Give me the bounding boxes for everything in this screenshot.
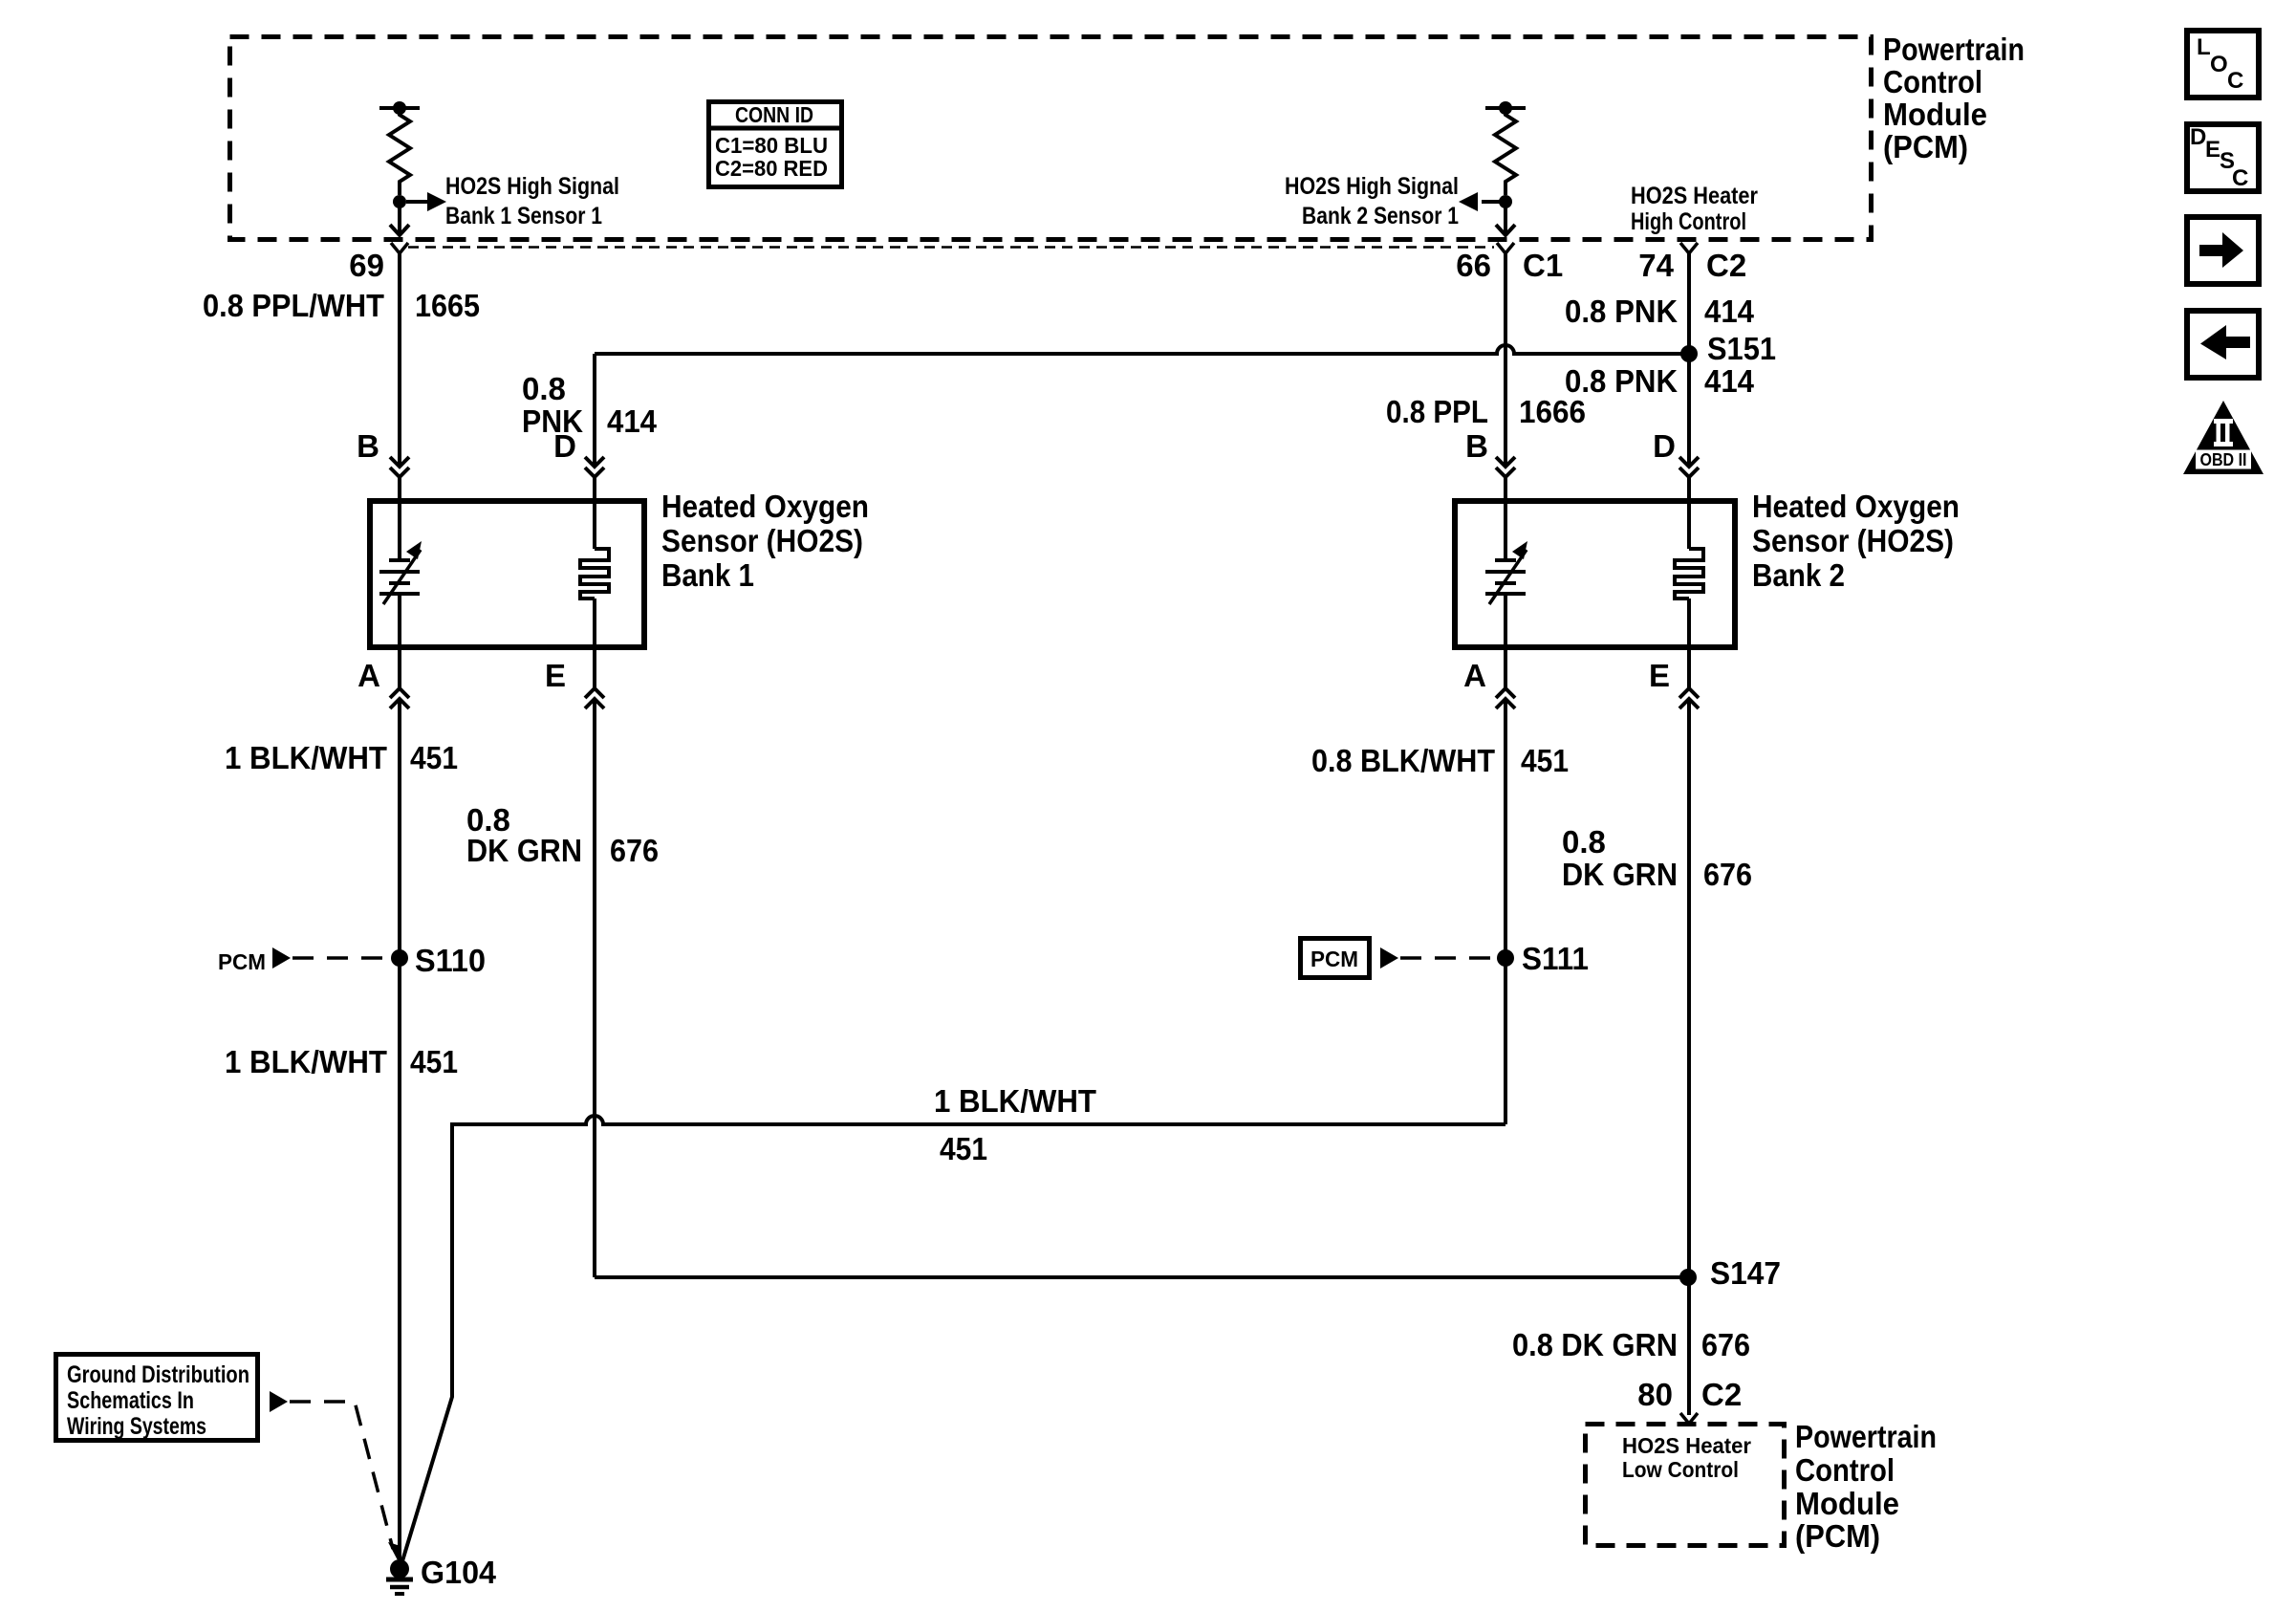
icon arrow-left box bbox=[2187, 311, 2259, 378]
svg-text:Bank 1: Bank 1 bbox=[661, 557, 754, 593]
connector pin 66 C1 bbox=[1497, 243, 1514, 253]
svg-text:74: 74 bbox=[1638, 248, 1674, 283]
dashed reference line to S111 bbox=[1400, 956, 1497, 960]
sensor cell element bank1 bbox=[398, 501, 401, 560]
svg-text:G104: G104 bbox=[421, 1555, 497, 1590]
svg-text:676: 676 bbox=[1703, 857, 1752, 892]
svg-text:CONN ID: CONN ID bbox=[735, 102, 813, 127]
svg-text:0.8 BLK/WHT: 0.8 BLK/WHT bbox=[1311, 743, 1495, 778]
connector pin 69 C1 bbox=[391, 243, 408, 253]
svg-text:E: E bbox=[1649, 658, 1670, 693]
in-line connector D bank2 bbox=[1679, 457, 1699, 477]
svg-text:451: 451 bbox=[410, 1044, 458, 1079]
arrow PCM to S111 bbox=[1380, 947, 1398, 969]
svg-text:1665: 1665 bbox=[415, 288, 480, 323]
svg-text:66: 66 bbox=[1456, 248, 1491, 283]
svg-text:1666: 1666 bbox=[1519, 394, 1586, 429]
svg-text:414: 414 bbox=[607, 403, 658, 439]
svg-text:B: B bbox=[1465, 428, 1488, 464]
wire 414 PNK vertical bank2 bbox=[1687, 253, 1691, 467]
wire A bank2 to connector bbox=[1504, 647, 1507, 688]
arrow PCM to S110 bbox=[272, 947, 291, 969]
svg-text:1 BLK/WHT: 1 BLK/WHT bbox=[225, 740, 387, 775]
splice S147 bbox=[1679, 1269, 1697, 1286]
wire 676 DK GRN bank1 vertical bbox=[593, 699, 596, 1277]
svg-text:DK GRN: DK GRN bbox=[1562, 857, 1678, 892]
svg-text:0.8: 0.8 bbox=[522, 371, 566, 406]
in-line connector E bank2 bbox=[1679, 688, 1699, 708]
svg-text:Wiring Systems: Wiring Systems bbox=[67, 1413, 206, 1440]
svg-text:0.8 PNK: 0.8 PNK bbox=[1565, 363, 1678, 399]
svg-text:69: 69 bbox=[349, 248, 384, 283]
heater element bank2 bbox=[1687, 501, 1691, 549]
svg-text:Module: Module bbox=[1795, 1486, 1899, 1521]
wire 451 BLK/WHT horizontal run to G104 (hop at DK GRN wire) bbox=[401, 1116, 1505, 1564]
svg-text:676: 676 bbox=[1701, 1327, 1750, 1362]
svg-text:S147: S147 bbox=[1710, 1255, 1781, 1291]
svg-text:E: E bbox=[2205, 137, 2220, 163]
svg-text:451: 451 bbox=[1521, 743, 1569, 778]
svg-text:S151: S151 bbox=[1707, 331, 1776, 366]
svg-text:High Control: High Control bbox=[1631, 208, 1746, 235]
svg-text:Powertrain: Powertrain bbox=[1883, 32, 2025, 67]
arrow HO2S High Signal bank2 bbox=[1459, 192, 1478, 211]
icon DESC box bbox=[2187, 124, 2259, 191]
resistor (bias) bank 1 signal, inside PCM bbox=[379, 106, 420, 110]
wire 451 BLK/WHT bank1 vertical to G104 bbox=[398, 699, 401, 1561]
svg-text:S111: S111 bbox=[1522, 941, 1589, 976]
Heated Oxygen Sensor (HO2S) Bank 1 box bbox=[370, 501, 644, 647]
svg-text:D: D bbox=[2190, 124, 2206, 150]
svg-text:HO2S High Signal: HO2S High Signal bbox=[445, 173, 619, 200]
heater element bank1 bbox=[593, 501, 596, 549]
CONN ID box bbox=[709, 102, 842, 187]
svg-text:A: A bbox=[357, 658, 380, 693]
ground symbol bar1 bbox=[386, 1578, 413, 1582]
svg-text:0.8: 0.8 bbox=[1562, 824, 1606, 860]
sensor cell element bank2 bbox=[1504, 501, 1507, 560]
svg-text:O: O bbox=[2210, 52, 2228, 77]
in-line connector D bank1 bbox=[585, 457, 604, 477]
svg-text:(PCM): (PCM) bbox=[1795, 1518, 1880, 1554]
icon arrow-right box bbox=[2187, 217, 2259, 284]
svg-text:C2=80 RED: C2=80 RED bbox=[715, 156, 828, 181]
wire E bank1 to connector bbox=[593, 647, 596, 688]
wire 676 DK GRN horizontal to S147 bbox=[595, 1275, 1689, 1279]
wire 414 PNK horizontal to S151 (hop at bank2 signal wire) bbox=[595, 345, 1689, 354]
svg-text:0.8 DK GRN: 0.8 DK GRN bbox=[1512, 1327, 1678, 1362]
wire E bank2 to connector bbox=[1687, 647, 1691, 688]
svg-text:451: 451 bbox=[940, 1131, 987, 1166]
svg-text:HO2S Heater: HO2S Heater bbox=[1631, 183, 1758, 209]
icon LOC box bbox=[2187, 31, 2259, 98]
wire into sensor B pin bank2 bbox=[1504, 477, 1507, 501]
wire 451 BLK/WHT bank2 vertical bbox=[1504, 699, 1507, 1124]
svg-text:D: D bbox=[1653, 428, 1676, 464]
svg-text:Module: Module bbox=[1883, 97, 1987, 132]
wire into sensor B pin bbox=[398, 477, 401, 501]
svg-text:Bank 1 Sensor 1: Bank 1 Sensor 1 bbox=[445, 203, 602, 229]
wire 676 DK GRN to PCM pin 80 bbox=[1687, 1277, 1691, 1415]
splice S110 bbox=[391, 949, 408, 967]
svg-text:80: 80 bbox=[1637, 1377, 1673, 1412]
svg-text:DK GRN: DK GRN bbox=[466, 833, 582, 868]
wire 414 PNK vertical bank1 bbox=[593, 354, 596, 467]
svg-text:Control: Control bbox=[1883, 64, 1982, 99]
wire into sensor D pin bank2 bbox=[1687, 477, 1691, 501]
wire resistor to pin 69 bbox=[406, 200, 428, 204]
svg-text:C1=80 BLU: C1=80 BLU bbox=[715, 133, 828, 158]
svg-text:1 BLK/WHT: 1 BLK/WHT bbox=[934, 1083, 1096, 1119]
wire resistor to arrow bbox=[1482, 200, 1501, 204]
svg-text:Low Control: Low Control bbox=[1622, 1457, 1739, 1482]
wire 1665 PPL/WHT vertical bbox=[398, 253, 401, 467]
PCM module box (bottom, dashed) bbox=[1586, 1425, 1785, 1546]
connector pin 80 C2 bbox=[1680, 1413, 1698, 1424]
in-line connector A bank2 bbox=[1496, 688, 1515, 708]
svg-text:0.8 PPL: 0.8 PPL bbox=[1386, 394, 1488, 429]
connector pin 74 C2 bbox=[1680, 243, 1698, 253]
svg-text:Bank 2 Sensor 1: Bank 2 Sensor 1 bbox=[1302, 203, 1459, 229]
svg-text:S110: S110 bbox=[415, 943, 486, 978]
in-line connector B bank2 bbox=[1496, 457, 1515, 477]
icon OBD II triangle bbox=[2183, 401, 2264, 474]
svg-text:A: A bbox=[1463, 658, 1486, 693]
svg-text:Schematics In: Schematics In bbox=[67, 1387, 194, 1414]
svg-text:451: 451 bbox=[410, 740, 458, 775]
svg-text:HO2S High Signal: HO2S High Signal bbox=[1285, 173, 1459, 200]
Heated Oxygen Sensor (HO2S) Bank 2 box bbox=[1455, 501, 1735, 647]
svg-text:414: 414 bbox=[1704, 363, 1755, 399]
wire resistor to PCM edge pin69 bbox=[398, 202, 401, 235]
svg-text:C2: C2 bbox=[1706, 248, 1746, 283]
svg-text:HO2S Heater: HO2S Heater bbox=[1622, 1433, 1751, 1458]
svg-text:(PCM): (PCM) bbox=[1883, 129, 1968, 164]
dashed reference line to S110 bbox=[292, 956, 391, 960]
svg-text:C1: C1 bbox=[1523, 248, 1563, 283]
svg-text:Bank 2: Bank 2 bbox=[1752, 557, 1845, 593]
dashed route to G104 bbox=[290, 1402, 393, 1549]
svg-text:L: L bbox=[2197, 34, 2211, 60]
svg-text:0.8 PNK: 0.8 PNK bbox=[1565, 294, 1678, 329]
svg-text:Control: Control bbox=[1795, 1452, 1895, 1488]
wire resistor to PCM edge pin66 bbox=[1504, 202, 1507, 235]
svg-text:D: D bbox=[553, 428, 576, 464]
svg-text:Sensor (HO2S): Sensor (HO2S) bbox=[1752, 523, 1954, 558]
in-line connector B bank1 bbox=[390, 457, 409, 477]
svg-text:1 BLK/WHT: 1 BLK/WHT bbox=[225, 1044, 387, 1079]
ground G104 node bbox=[390, 1559, 409, 1578]
arrow into pin 69 bbox=[390, 225, 409, 235]
svg-text:414: 414 bbox=[1704, 294, 1755, 329]
svg-text:B: B bbox=[357, 428, 379, 464]
svg-text:C: C bbox=[2232, 165, 2248, 191]
ground symbol bar3 bbox=[395, 1592, 404, 1596]
arrow into pin 66 bbox=[1496, 225, 1515, 235]
PCM box label bbox=[1301, 939, 1370, 978]
wire 1666 PPL vertical bbox=[1504, 253, 1507, 467]
svg-text:Heated Oxygen: Heated Oxygen bbox=[661, 489, 869, 524]
svg-text:Sensor (HO2S): Sensor (HO2S) bbox=[661, 523, 863, 558]
svg-text:OBD II: OBD II bbox=[2200, 450, 2247, 469]
PCM module box (top, dashed) bbox=[230, 37, 1872, 240]
arrow HO2S High Signal bank1 bbox=[427, 192, 446, 211]
svg-text:C: C bbox=[2227, 68, 2243, 94]
svg-text:C2: C2 bbox=[1701, 1377, 1742, 1412]
wire A bank1 to connector bbox=[398, 647, 401, 688]
resistor (bias) bank 2 signal, inside PCM bbox=[1485, 106, 1526, 110]
arrow Ground Distribution to G104 bbox=[270, 1391, 288, 1412]
ground symbol bar2 bbox=[390, 1585, 409, 1590]
in-line connector A bank1 bbox=[390, 688, 409, 708]
wire 414 PNK into D pin bank1 bbox=[593, 477, 596, 501]
wire 676 DK GRN bank2 vertical bbox=[1687, 699, 1691, 1277]
splice S151 bbox=[1680, 345, 1698, 362]
svg-text:Powertrain: Powertrain bbox=[1795, 1419, 1937, 1454]
svg-text:E: E bbox=[545, 658, 566, 693]
svg-text:Heated Oxygen: Heated Oxygen bbox=[1752, 489, 1960, 524]
connector C1 face (thin dashed line) bbox=[408, 246, 1494, 249]
in-line connector E bank1 bbox=[585, 688, 604, 708]
Ground Distribution callout box bbox=[56, 1355, 258, 1441]
svg-text:0.8 PPL/WHT: 0.8 PPL/WHT bbox=[203, 288, 384, 323]
arrowhead dashed route at G104 bbox=[388, 1542, 401, 1560]
svg-text:PCM: PCM bbox=[1310, 947, 1358, 971]
splice S111 bbox=[1497, 949, 1514, 967]
svg-text:PCM: PCM bbox=[218, 949, 266, 974]
svg-text:Ground Distribution: Ground Distribution bbox=[67, 1361, 249, 1388]
svg-text:676: 676 bbox=[610, 833, 659, 868]
